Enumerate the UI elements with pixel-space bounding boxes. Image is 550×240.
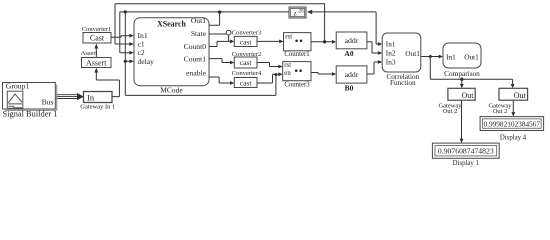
svg-text:Out1: Out1 [191,16,206,25]
svg-text:Function: Function [390,79,416,87]
svg-text:c2: c2 [138,48,145,57]
svg-text:-20: -20 [297,10,304,15]
svg-text:enable: enable [186,69,206,78]
svg-text:0.99982102384567: 0.99982102384567 [484,120,541,129]
svg-text:B0: B0 [345,84,354,93]
svg-text:c1: c1 [138,40,145,49]
svg-text:Count1: Count1 [184,54,207,63]
svg-text:Out 2: Out 2 [443,108,458,115]
svg-text:Assert: Assert [81,50,98,57]
svg-text:Out 2: Out 2 [493,108,508,115]
svg-text:Out1: Out1 [405,49,420,58]
svg-text:In1: In1 [386,39,396,48]
svg-text:cast: cast [240,78,253,87]
svg-text:Display 1: Display 1 [453,160,479,167]
svg-text:Comparison: Comparison [444,69,480,78]
svg-text:0.9076087474823: 0.9076087474823 [438,147,494,156]
svg-text:rst: rst [285,33,292,40]
svg-text:delay: delay [138,57,155,66]
svg-text:Assert: Assert [86,58,107,67]
svg-text:Signal Builder 1: Signal Builder 1 [3,109,58,118]
svg-text:XSearch: XSearch [157,19,186,28]
svg-text:Converter1: Converter1 [82,26,112,33]
svg-text:In: In [87,93,95,103]
svg-text:addr: addr [345,70,359,79]
svg-text:Bus: Bus [42,98,54,107]
svg-text:Gateway In 1: Gateway In 1 [80,103,115,110]
svg-text:State: State [191,29,207,38]
svg-text:Counter1: Counter1 [284,51,309,58]
svg-text:A0: A0 [344,49,353,58]
svg-text:Converter3: Converter3 [232,30,262,37]
svg-text:Display 4: Display 4 [500,134,527,141]
svg-text:cast: cast [240,58,253,67]
svg-text:cast: cast [240,37,253,46]
svg-text:Counter3: Counter3 [284,82,310,89]
svg-text:In1: In1 [446,52,456,61]
svg-text:z: z [293,9,296,17]
svg-text:en: en [284,70,291,77]
svg-text:addr: addr [345,36,359,45]
svg-text:Count0: Count0 [184,42,207,51]
svg-text:Cast: Cast [90,34,105,43]
svg-text:Out1: Out1 [464,52,479,61]
svg-text:MCode: MCode [160,86,183,95]
svg-text:In2: In2 [386,48,396,57]
svg-text:Converter4: Converter4 [232,70,262,77]
svg-text:rst: rst [284,62,291,69]
svg-text:In3: In3 [386,57,396,66]
svg-text:Converter2: Converter2 [232,51,262,58]
svg-text:Out: Out [462,91,475,100]
svg-text:Group1: Group1 [6,82,30,91]
svg-text:Out: Out [514,91,527,100]
